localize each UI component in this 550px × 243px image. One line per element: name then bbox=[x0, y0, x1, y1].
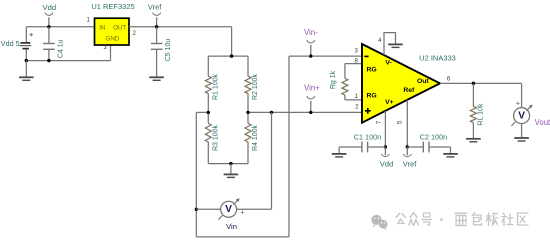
svg-text:GND: GND bbox=[106, 36, 120, 43]
wire pin 8 bbox=[345, 64, 362, 79]
svg-text:R3 100k: R3 100k bbox=[212, 124, 219, 151]
junction source left bbox=[195, 208, 198, 211]
wire bottom-left rail bbox=[26, 45, 110, 61]
watermark logo bbox=[371, 215, 387, 231]
pin 7 U2 bbox=[377, 120, 383, 124]
label C4 1u bbox=[57, 39, 64, 58]
ground bridge bbox=[224, 164, 239, 178]
label Vref bbox=[148, 2, 163, 11]
svg-text:R1 100k: R1 100k bbox=[212, 73, 219, 100]
svg-text:C4 1u: C4 1u bbox=[57, 39, 64, 58]
pin 3 U2 bbox=[355, 49, 359, 55]
wire out bbox=[440, 83, 522, 107]
resistor Rg 1k bbox=[342, 78, 348, 95]
pin 1 U1 bbox=[87, 17, 91, 23]
junction C4 bottom bbox=[47, 59, 50, 62]
ground battery bbox=[19, 61, 34, 81]
label Vdd 5 bbox=[1, 39, 20, 48]
label Vin+ bbox=[304, 84, 320, 93]
svg-text:C1 100n: C1 100n bbox=[354, 133, 382, 142]
ground V- pin bbox=[388, 44, 403, 47]
label C2 100n bbox=[420, 133, 448, 142]
junction Vdd rail bbox=[47, 25, 50, 28]
label Rg 1k bbox=[330, 70, 337, 89]
svg-text:Ref: Ref bbox=[403, 87, 415, 94]
pin 6 U2 bbox=[447, 77, 451, 83]
wire Vin- to pin 3 bbox=[289, 55, 362, 57]
pin 2 U1 bbox=[133, 31, 137, 37]
junction bridge top bbox=[230, 54, 233, 57]
junction Vin- bbox=[309, 54, 312, 57]
svg-text:+: + bbox=[240, 209, 244, 216]
svg-text:V: V bbox=[225, 204, 232, 215]
svg-text:Vdd 5: Vdd 5 bbox=[1, 39, 20, 48]
resistor R2 100k bbox=[245, 56, 251, 112]
label Vdd 2 bbox=[380, 159, 394, 168]
svg-text:RG: RG bbox=[366, 93, 376, 100]
pin 1 U2 bbox=[355, 94, 359, 100]
svg-text:Vref: Vref bbox=[148, 2, 163, 11]
junction Vin+ bbox=[309, 111, 312, 114]
junction Vref node bbox=[406, 145, 409, 148]
power node Vdd 2 bbox=[381, 147, 389, 157]
svg-text:V: V bbox=[518, 110, 525, 121]
svg-text:U2 INA333: U2 INA333 bbox=[419, 54, 456, 63]
label R2 100k bbox=[252, 73, 259, 100]
op-amp U1 REF3325 box bbox=[95, 18, 130, 45]
power node Vdd bbox=[45, 13, 53, 27]
wire V+ pin to Vdd bbox=[384, 111, 386, 147]
label Vin- bbox=[304, 28, 318, 37]
svg-text:Vin-: Vin- bbox=[304, 28, 318, 37]
label R3 100k bbox=[212, 124, 219, 151]
wire around bottom to Vin- bbox=[196, 56, 289, 237]
wire node B to pin 2 bbox=[248, 111, 362, 113]
label Vout bbox=[535, 118, 550, 127]
svg-text:V-: V- bbox=[385, 59, 391, 66]
wire voltmeter to ground bbox=[521, 124, 523, 137]
power node Vref 2 bbox=[403, 147, 411, 157]
voltage source Vin bbox=[196, 198, 244, 219]
svg-text:V+: V+ bbox=[385, 99, 394, 106]
pin 4 U2 bbox=[378, 38, 382, 44]
ground RL bbox=[466, 139, 481, 142]
pin 8 U2 bbox=[355, 58, 359, 64]
junction battery bottom bbox=[25, 59, 28, 62]
wire pin 1 bbox=[345, 95, 362, 100]
wire V- pin bbox=[384, 33, 396, 56]
junction node A bbox=[207, 111, 210, 114]
watermark text bbox=[396, 213, 528, 226]
ground C2 bbox=[443, 147, 458, 157]
node Vin- bbox=[307, 40, 315, 56]
label R4 100k bbox=[252, 124, 259, 151]
svg-text:Vref: Vref bbox=[403, 159, 418, 168]
svg-text:R2 100k: R2 100k bbox=[252, 73, 259, 100]
label RL 10k bbox=[478, 103, 485, 125]
svg-text:+: + bbox=[516, 100, 520, 107]
svg-text:Vout: Vout bbox=[535, 118, 550, 127]
wire bridge bottom bbox=[208, 163, 248, 165]
wire U1 out to Vref feed bbox=[129, 27, 232, 56]
svg-text:RL 10k: RL 10k bbox=[478, 103, 485, 125]
svg-text:IN: IN bbox=[99, 25, 105, 32]
svg-text:Vdd: Vdd bbox=[43, 3, 57, 12]
svg-text:U1 REF3325: U1 REF3325 bbox=[91, 2, 134, 11]
capacitor C5 10u bbox=[151, 27, 163, 77]
label R1 100k bbox=[212, 73, 219, 100]
power node Vref bbox=[152, 13, 160, 27]
pin 5 U2 bbox=[397, 120, 403, 124]
label C5 10u bbox=[165, 39, 172, 62]
junction out bbox=[472, 82, 475, 85]
capacitor C1 100n bbox=[339, 142, 385, 153]
label Vin bbox=[226, 222, 237, 231]
junction Vdd node bbox=[384, 145, 387, 148]
op-amp U2 INA333 bbox=[362, 44, 440, 123]
svg-text:OUT: OUT bbox=[113, 25, 126, 32]
svg-text:C2 100n: C2 100n bbox=[420, 133, 448, 142]
resistor R3 100k bbox=[205, 112, 211, 163]
svg-text:RG: RG bbox=[366, 67, 376, 74]
resistor R4 100k bbox=[245, 112, 251, 163]
wire V source plus bbox=[237, 112, 272, 209]
wire bridge top bbox=[208, 55, 248, 57]
wire top rail Vdd bbox=[26, 26, 94, 28]
capacitor C2 100n bbox=[407, 142, 450, 153]
voltmeter Vout bbox=[511, 100, 532, 125]
svg-text:Vin: Vin bbox=[226, 222, 237, 231]
svg-text:+: + bbox=[29, 30, 34, 39]
resistor R1 100k bbox=[205, 56, 211, 112]
junction node B bbox=[246, 111, 249, 114]
svg-text:Vdd: Vdd bbox=[380, 159, 394, 168]
pin 2 U2 bbox=[355, 105, 359, 111]
wire Ref pin to Vref bbox=[406, 100, 408, 147]
capacitor C4 1u bbox=[43, 27, 55, 61]
svg-text:Rg 1k: Rg 1k bbox=[330, 70, 337, 89]
junction bridge bottom bbox=[229, 162, 232, 165]
ground C5 bbox=[149, 77, 164, 80]
svg-text:R4 100k: R4 100k bbox=[252, 124, 259, 151]
svg-text:C5 10u: C5 10u bbox=[165, 39, 172, 62]
ground voltmeter bbox=[514, 138, 529, 141]
resistor RL 10k bbox=[470, 83, 476, 138]
svg-text:Vin+: Vin+ bbox=[304, 84, 320, 93]
label Vref 2 bbox=[403, 159, 418, 168]
wire node A to source bbox=[196, 112, 208, 209]
junction V+ tap bbox=[270, 111, 273, 114]
pin 3 U1 bbox=[103, 45, 107, 51]
battery B1 Vdd 5 bbox=[19, 27, 34, 61]
label C1 100n bbox=[354, 133, 382, 142]
label U1 REF3325 bbox=[91, 2, 134, 11]
junction Vref rail bbox=[155, 25, 158, 28]
label U2 INA333 bbox=[419, 54, 456, 63]
ground C1 bbox=[332, 147, 347, 157]
node Vin+ bbox=[307, 96, 315, 112]
svg-text:Out: Out bbox=[417, 78, 429, 85]
label Vdd bbox=[43, 3, 57, 12]
